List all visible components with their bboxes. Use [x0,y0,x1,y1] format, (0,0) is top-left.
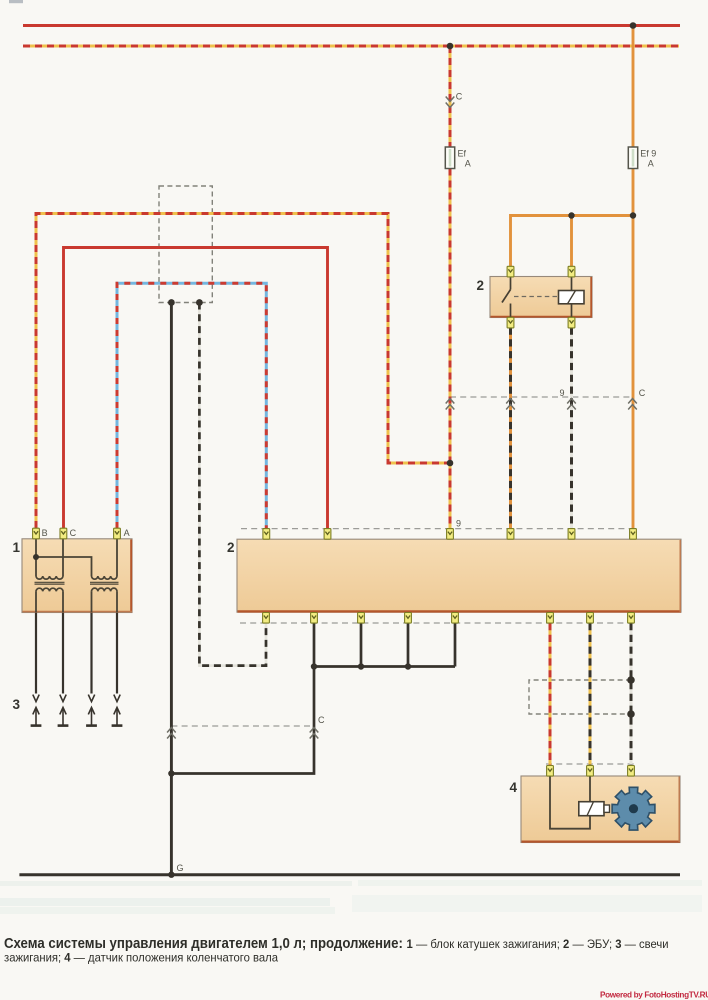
wire blue/red from coil pin A to ECU [117,283,266,529]
relay actuation dashed link [514,296,557,298]
ECU top pin (black/white) [568,529,575,540]
junction orange tee at relay coil [568,212,574,218]
relay pin 87 bottom [507,317,514,328]
transformer left secondary winding [36,588,63,591]
transformer right secondary winding [92,588,118,591]
ECU bottom pin gnd 3 [405,613,412,624]
wire orange relay feed tee [511,216,634,267]
junction inside coil block [33,554,39,560]
junction orange tee at main drop [630,212,636,218]
svg-text:C: C [639,388,646,398]
svg-text:B: B [42,528,48,538]
crank sensor box 4 body [521,776,680,843]
svg-text:A: A [465,159,471,169]
ECU box 2 body [237,539,681,612]
spark plug 1 gap symbol [31,695,42,726]
spark plug leads [36,613,117,694]
svg-text:9: 9 [560,388,565,398]
shield box junction bottom [627,710,635,718]
sensor pin 1 [547,766,554,777]
wire orange to relay coil pin [570,216,573,267]
junction ground run meets earth drop [168,770,174,776]
ignition coil block 1 body [22,539,132,613]
svg-text:зажигания; 4 — датчик положени: зажигания; 4 — датчик положения коленчат… [4,951,278,964]
ground run down and across to main earth wire [171,667,314,774]
ECU bottom pin (black/white) [263,613,270,624]
ECU bottom pin (red/yellow) [547,613,554,624]
svg-text:C: C [456,92,463,102]
ECU top pin (orange) [630,529,637,540]
ground bus junctions [311,663,317,669]
wire red/yellow from bus through fuse Ef to ECU pin (x=450) [449,46,452,529]
connector chevrons at lower C line [167,728,318,739]
junction at module box lead 2 [196,299,203,306]
coil block pin B [33,528,40,539]
sensor pin 2 [587,766,594,777]
svg-text:2: 2 [227,540,235,555]
connector line above ECU top pins [241,528,633,530]
wire black/white from module box to ECU bottom pin [199,303,266,666]
relay box body [490,277,592,318]
svg-text:1: 1 [13,540,21,555]
connector line C lower left [171,725,314,727]
spark plug 3 gap symbol [86,695,97,726]
svg-text:C: C [318,715,325,725]
wire black solid from module box down to ground line [170,303,173,875]
wire red/yellow ECU to crank sensor [549,623,552,766]
secondary leads to box bottom [36,591,117,612]
junction G on earth wire [168,872,174,878]
svg-text:9: 9 [456,519,461,529]
svg-text:A: A [648,159,654,169]
wire black/yellow ECU to crank sensor [589,623,592,766]
wire black/orange from relay contact to ECU [509,328,512,530]
ECU ground bus wires [314,623,455,667]
gear hub [629,804,638,813]
sensor pin 3 [628,766,635,777]
svg-text:A: A [124,528,130,538]
wire black/white from relay coil to ECU [570,328,573,530]
relay coil box [559,277,585,318]
ECU top pin (red) [324,529,331,540]
junction red bus / orange wire [630,22,637,29]
wire red/yellow loop from coil pin B up over to fuse wire [36,214,450,529]
ECU bottom pin gnd 4 [452,613,459,624]
transformer left core [35,582,65,584]
wire red from coil pin C to ECU [64,248,328,530]
ECU top pin (blue/red) [263,529,270,540]
coil block pin A [114,528,121,539]
ECU top pin (black/orange) [507,529,514,540]
fuse Ef 9 A [628,147,637,169]
relay pin 30 top [507,266,514,277]
junction dashed bus / fuse wire [447,43,454,50]
svg-text:Powered by FotoHostingTV.RU: Powered by FotoHostingTV.RU [600,991,708,1000]
connector line above sensor 4 [546,763,634,765]
coil block 1 internals: feed from pin B junction [36,539,117,576]
connector chevron C on fuse wire (points down) [446,97,455,108]
wire orange from red bus through fuse Ef9 down to ECU pin (x=633) [632,26,635,148]
ground wire G [19,873,680,876]
ground bus horizontal [314,665,455,668]
coil block pin C [60,528,67,539]
junction red/yellow loop joins fuse wire [447,460,454,467]
dashed shield box at crank sensor wires [529,680,631,714]
connector line below ECU bottom pins [240,622,634,624]
spark plug 4 gap symbol [112,695,123,726]
transformer right primary winding [92,576,118,579]
connector chevrons at relay-level line [446,399,637,410]
wire black/white shield ECU to crank sensor [630,623,633,766]
junction at module box lead 1 [168,299,175,306]
ECU bottom pin (shield) [628,613,635,624]
power rail red (top bus) [23,24,680,27]
svg-text:G: G [177,863,184,873]
ECU top pin 9 (red/yellow) [447,529,454,540]
shield box junction top [627,676,635,684]
svg-text:2: 2 [477,278,485,293]
svg-text:C: C [70,528,77,538]
ECU bottom pin gnd 1 [311,613,318,624]
reluctor gear wheel [612,787,655,830]
svg-text:3: 3 [13,697,21,712]
ECU bottom pin (black/yellow) [587,613,594,624]
relay internals: contact arm [502,277,511,318]
fuse Ef A [445,147,454,169]
relay pin 85 top [568,266,575,277]
transformer left primary winding [36,576,63,579]
relay pin 86 bottom [568,317,575,328]
dashed outline box (off-page ignition module) [159,186,212,303]
power rail red/yellow dashed (second bus) [23,45,679,48]
crank sensor internals: pickup coil and leads [550,776,590,829]
transformer right core [90,582,119,584]
svg-text:Ef 9: Ef 9 [640,149,656,159]
svg-text:Схема системы управления двига: Схема системы управления двигателем 1,0 … [4,936,669,952]
svg-text:4: 4 [510,780,518,795]
ECU bottom pin gnd 2 [358,613,365,624]
svg-text:Ef: Ef [458,149,467,159]
connector line C/9 at relay level [450,396,633,398]
spark plug 2 gap symbol [58,695,69,726]
